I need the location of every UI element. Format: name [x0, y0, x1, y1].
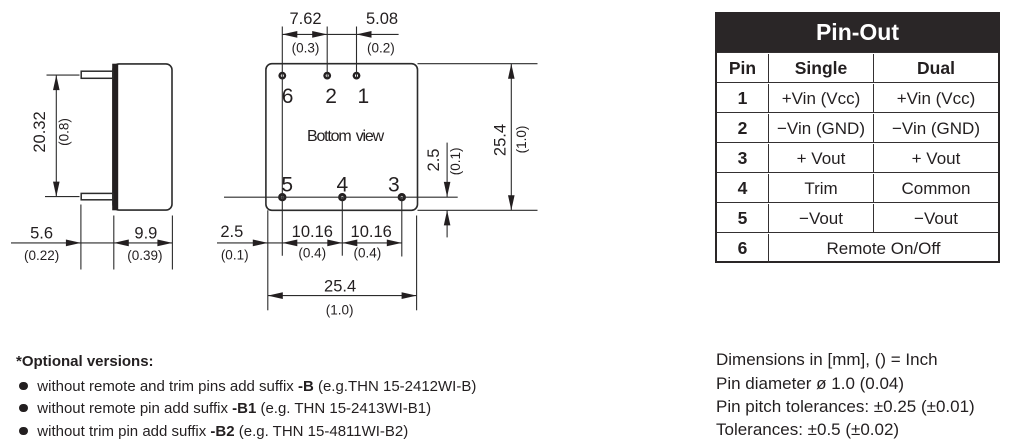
pin 2 circle — [323, 72, 331, 80]
svg-text:10.16: 10.16 — [292, 223, 333, 241]
ext line pin1 — [356, 27, 358, 80]
pin row line through pins 5,4,3 — [224, 196, 458, 198]
svg-text:7.62: 7.62 — [289, 10, 321, 28]
Pin-Out table — [715, 12, 1000, 263]
svg-text:(0.3): (0.3) — [292, 41, 320, 56]
svg-text:1: 1 — [358, 85, 370, 108]
svg-text:(0.1): (0.1) — [448, 148, 463, 176]
ext line package left (long, for 25.4) — [267, 210, 269, 310]
extension line top pin — [47, 74, 80, 76]
optional versions text block — [16, 353, 154, 370]
svg-text:(0.4): (0.4) — [298, 245, 326, 260]
pin 5 circle — [278, 193, 286, 201]
dim row under side view: 5.6 / 9.9 — [11, 242, 172, 244]
svg-text:5.08: 5.08 — [366, 10, 398, 28]
dimension line 25.4 bottom — [268, 295, 417, 297]
svg-text:(0.8): (0.8) — [57, 118, 72, 146]
ext line pin3 column — [401, 197, 403, 256]
svg-text:(0.4): (0.4) — [354, 245, 382, 260]
svg-text:6: 6 — [282, 85, 294, 108]
extension line bottom pin — [45, 196, 80, 198]
svg-text:5: 5 — [281, 173, 293, 196]
ext line package bottom right — [418, 209, 538, 211]
svg-text:25.4: 25.4 — [324, 278, 356, 296]
dimension line 2.5 right upper segment — [446, 143, 448, 197]
dim row under bottom view: 2.5 / 10.16 / 10.16 — [217, 242, 402, 244]
ext line pin2 — [326, 27, 328, 80]
arrowheads 2.5 right — [444, 182, 451, 197]
svg-text:2.5: 2.5 — [425, 149, 443, 172]
pin 4 circle — [338, 193, 346, 201]
svg-text:(0.1): (0.1) — [221, 247, 249, 262]
pin 3 circle — [398, 193, 406, 201]
dimensions note block — [716, 350, 938, 370]
svg-text:4: 4 — [336, 173, 348, 196]
dimension line 2.5 right lower segment — [446, 210, 448, 237]
ext line package right (long, for 25.4) — [416, 216, 418, 311]
svg-text:(0.39): (0.39) — [127, 248, 162, 263]
ext line pin4 column — [341, 197, 343, 256]
arrowhead 5.6 (tip at pin end line) — [66, 240, 81, 247]
pin 6 circle — [278, 72, 286, 80]
svg-text:(0.22): (0.22) — [24, 248, 59, 263]
svg-text:3: 3 — [388, 173, 400, 196]
arrowheads 10.16 first — [282, 240, 297, 247]
arrowheads 10.16 second — [342, 240, 357, 247]
svg-text:25.4: 25.4 — [491, 124, 509, 156]
dimension line 20.32 — [55, 75, 57, 197]
svg-text:Bottom view: Bottom view — [307, 128, 385, 145]
side view bottom pin — [81, 193, 113, 199]
svg-text:20.32: 20.32 — [31, 111, 49, 152]
arrowheads 7.62 — [282, 31, 297, 38]
svg-text:(1.0): (1.0) — [514, 126, 529, 154]
svg-text:10.16: 10.16 — [351, 223, 392, 241]
dimension line 25.4 right — [510, 64, 512, 211]
ext line body left — [113, 216, 115, 270]
svg-text:2.5: 2.5 — [220, 223, 243, 241]
svg-text:(1.0): (1.0) — [326, 303, 354, 318]
pin 1 circle — [353, 72, 361, 80]
arrowhead 2.5 (tip at package-left ext line) — [253, 240, 268, 247]
arrowheads 9.9 — [114, 240, 129, 247]
side view body left thick wall — [112, 64, 118, 211]
svg-text:5.6: 5.6 — [30, 225, 53, 243]
svg-text:9.9: 9.9 — [134, 225, 157, 243]
arrowhead 5.08 (right of pin1, tip at pin1 line) — [357, 31, 372, 38]
bottom view package outline — [266, 64, 418, 211]
arrowheads 25.4 bottom — [268, 292, 283, 299]
ext line pin end — [80, 205, 82, 270]
arrowheads, 20.32 dim — [53, 75, 60, 90]
ext line body right — [171, 216, 173, 270]
top dimension line 7.62 / 5.08 — [282, 33, 398, 35]
side view body outline — [113, 64, 172, 210]
ext line package top right — [418, 63, 538, 65]
side view top pin — [81, 71, 113, 78]
svg-text:2: 2 — [325, 85, 337, 108]
arrowheads 25.4 right — [508, 64, 515, 79]
ext line pin6 column (runs down through pin5) — [281, 27, 283, 256]
svg-text:(0.2): (0.2) — [367, 41, 395, 56]
